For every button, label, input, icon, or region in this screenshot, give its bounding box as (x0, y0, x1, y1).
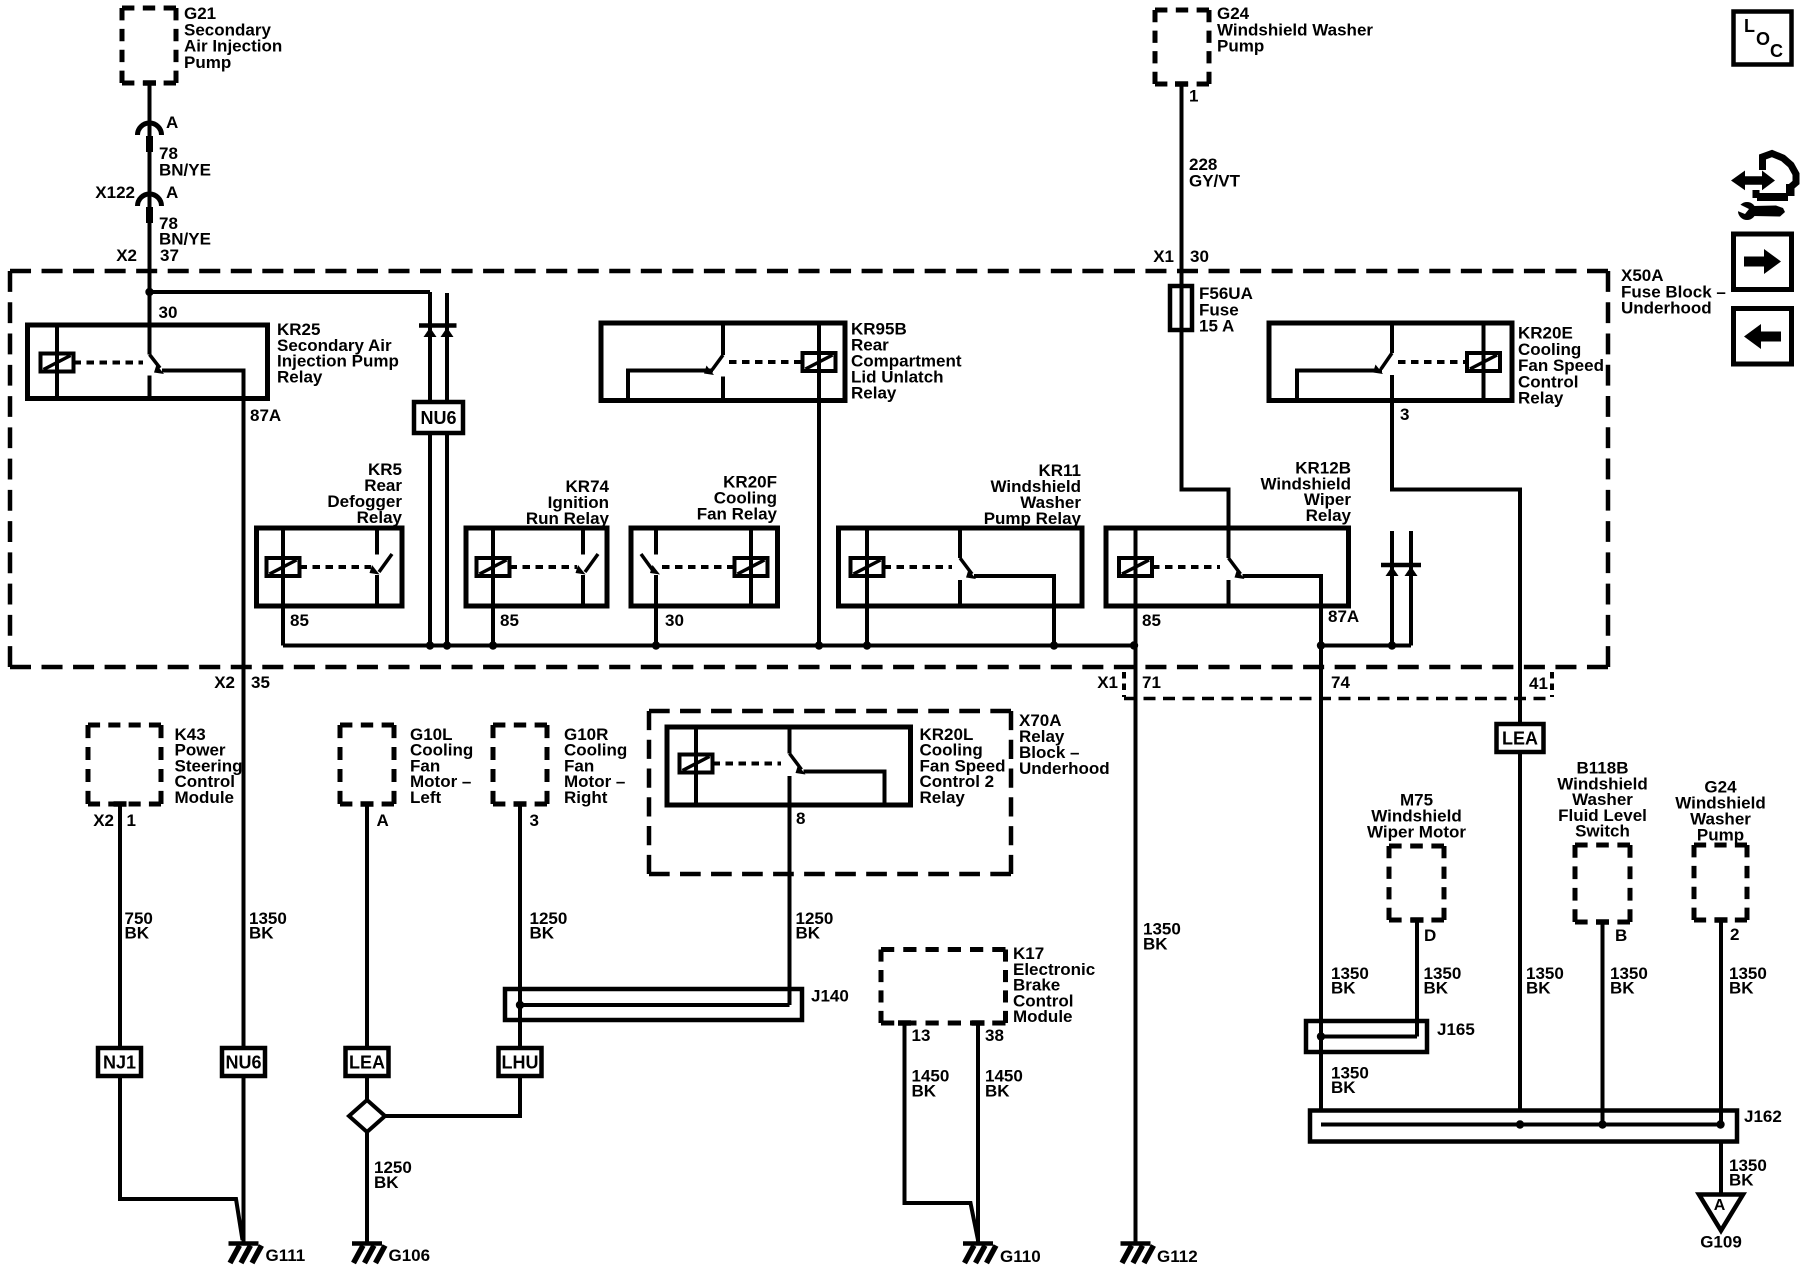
relay KR95B switch lower stub (721, 377, 725, 401)
relay KR12B box (1106, 528, 1349, 606)
svg-text:J162: J162 (1744, 1107, 1782, 1126)
junction dot at node 30 (145, 288, 153, 296)
boxed net LEA (upper) (1497, 724, 1544, 752)
relay KR25 switch blade (150, 355, 161, 369)
svg-text:A: A (377, 811, 389, 830)
relay KR20L coil wire (694, 727, 698, 805)
relay KR74 switch blade (585, 554, 598, 572)
wire J162 to G109 (1719, 1142, 1723, 1197)
icon LOC box (1734, 12, 1792, 65)
connector X1 strip dashed line (1124, 697, 1550, 701)
relay block X70A dashed outline (649, 709, 1011, 714)
relay KR25 87A internal wire (162, 371, 244, 399)
relay KR74 switch lower stub (581, 575, 585, 606)
wire NU6 right line (445, 293, 449, 646)
svg-text:BK: BK (249, 924, 274, 943)
relay KR95B coil wire to bus (817, 323, 821, 646)
relay KR74 coil wire / pin 85 (491, 528, 495, 646)
relay KR20E switch lower stub / pin 3 (1392, 375, 1520, 1111)
svg-text:D: D (1424, 926, 1436, 945)
relay KR20F coil (735, 558, 768, 576)
component G10R Cooling Fan Motor Right (493, 723, 547, 728)
svg-text:87A: 87A (250, 406, 281, 425)
splice diamond (349, 1100, 385, 1132)
svg-text:15 A: 15 A (1199, 317, 1234, 336)
svg-text:BK: BK (1331, 1078, 1356, 1097)
svg-text:X1: X1 (1097, 673, 1118, 692)
svg-text:Relay: Relay (357, 508, 403, 527)
svg-text:LEA: LEA (349, 1053, 385, 1073)
wire M75 pin D to J165 (1415, 920, 1419, 1037)
svg-text:Relay: Relay (920, 788, 966, 807)
wire K43 pin 1 to G111 (120, 804, 243, 1240)
relay KR5 dashed link (300, 565, 372, 569)
svg-text:BN/YE: BN/YE (159, 160, 211, 179)
svg-text:38: 38 (985, 1026, 1004, 1045)
svg-text:Fan Relay: Fan Relay (697, 505, 778, 524)
junction dot in J165 (1317, 1032, 1325, 1040)
relay KR95B switch upper stub (721, 323, 725, 355)
svg-text:Underhood: Underhood (1621, 299, 1712, 318)
relay KR20L box (667, 727, 911, 805)
relay KR12B switch blade (1229, 558, 1241, 574)
connector X1 strip end markers (1122, 672, 1126, 697)
relay KR12B coil wire / pin 85 to G112 (1134, 528, 1138, 1243)
svg-text:71: 71 (1142, 673, 1161, 692)
svg-text:85: 85 (290, 611, 309, 630)
wire G21 pin A to KR25 pin 30 (148, 83, 152, 355)
relay KR20F switch lower stub / pin 30 (654, 575, 658, 646)
ground G112 (1121, 1241, 1151, 1246)
relay KR11 coil (851, 558, 884, 576)
fuse F56UA (1170, 286, 1192, 330)
svg-text:74: 74 (1331, 673, 1350, 692)
svg-text:BK: BK (1424, 979, 1449, 998)
svg-text:G112: G112 (1157, 1247, 1198, 1266)
relay KR20F switch blade (641, 554, 654, 572)
svg-text:35: 35 (251, 673, 270, 692)
svg-text:BK: BK (1143, 935, 1168, 954)
boxed net NU6 (lower) (222, 1048, 265, 1076)
relay KR5 box (257, 528, 403, 606)
svg-text:J140: J140 (811, 987, 849, 1006)
relay KR11 coil wire to bus (865, 528, 869, 646)
svg-text:NU6: NU6 (420, 408, 456, 428)
connector arrows at KR12B (1390, 531, 1394, 646)
component G21 Secondary Air Injection Pump (122, 6, 176, 11)
svg-text:Right: Right (564, 788, 608, 807)
relay KR12B switch upper stub (1227, 528, 1231, 558)
wire diamond to G106 (365, 1132, 369, 1243)
svg-text:1: 1 (1189, 87, 1198, 106)
relay KR20L internal L wire (804, 772, 885, 806)
svg-text:LHU: LHU (502, 1053, 539, 1073)
component G10L Cooling Fan Motor Left (340, 723, 394, 728)
svg-text:Pump Relay: Pump Relay (984, 509, 1082, 528)
svg-text:X2: X2 (116, 246, 137, 265)
relay KR25 box (28, 325, 268, 399)
relay KR12B dashed link (1152, 565, 1220, 569)
svg-text:Relay: Relay (1518, 389, 1564, 408)
relay KR74 dashed link (510, 565, 578, 569)
svg-text:87A: 87A (1328, 607, 1359, 626)
relay KR12B internal L wire / pin 87A (1243, 576, 1322, 606)
wire node 30 horizontal branch (150, 290, 431, 294)
connector A at G21 (138, 123, 162, 135)
svg-text:LEA: LEA (1502, 729, 1538, 749)
relay KR25 switch lower stub (148, 376, 152, 399)
svg-text:BK: BK (1729, 979, 1754, 998)
svg-text:3: 3 (530, 811, 539, 830)
svg-text:3: 3 (1400, 405, 1409, 424)
relay KR95B dashed link (729, 360, 803, 364)
junction dots in J162 (1516, 1120, 1524, 1128)
component G24 Windshield Washer Pump (top) (1155, 8, 1209, 13)
relay KR11 switch upper stub (958, 528, 962, 558)
relay KR5 switch upper stub (375, 528, 379, 555)
svg-text:Left: Left (410, 788, 442, 807)
svg-text:X1: X1 (1153, 247, 1174, 266)
svg-text:37: 37 (160, 246, 179, 265)
svg-text:Run Relay: Run Relay (526, 509, 610, 528)
wire 87A bus segment (1321, 644, 1411, 648)
wire B118B pin B to J162 (1601, 922, 1605, 1125)
svg-text:BK: BK (912, 1082, 937, 1101)
svg-text:30: 30 (159, 303, 178, 322)
svg-text:X2: X2 (93, 811, 114, 830)
relay KR20F coil wire (749, 528, 753, 606)
relay KR20E coil wire (1482, 323, 1486, 401)
icon service double arrow (1731, 171, 1775, 191)
icon service curved arrow outline (1763, 154, 1797, 189)
svg-text:BK: BK (1331, 979, 1356, 998)
svg-text:1: 1 (127, 811, 136, 830)
relay KR11 box (839, 528, 1083, 606)
relay KR20E dashed link (1398, 360, 1467, 364)
relay KR12B switch lower stub (1227, 580, 1231, 606)
ground G110 (963, 1241, 993, 1246)
junction block J165 (1306, 1021, 1427, 1052)
svg-text:Pump: Pump (1697, 826, 1744, 845)
relay KR25 coil wire (55, 325, 59, 399)
relay KR95B internal L wire (628, 371, 713, 401)
icon forward arrow box (1734, 234, 1792, 290)
svg-text:BK: BK (125, 924, 150, 943)
wire KR12B 87A to J162 (1319, 606, 1323, 1111)
wire K17 pin 38 to G110 (976, 1023, 980, 1243)
svg-text:41: 41 (1529, 674, 1548, 693)
relay KR95B switch blade (712, 355, 723, 370)
svg-text:13: 13 (912, 1026, 931, 1045)
relay KR20L switch upper stub (788, 727, 792, 754)
relay KR20F switch upper stub (654, 528, 658, 555)
fuse block X50A dashed outline (10, 269, 1608, 274)
relay KR95B box (601, 323, 845, 401)
relay KR5 switch blade (379, 554, 392, 572)
svg-text:Underhood: Underhood (1019, 759, 1110, 778)
svg-text:G106: G106 (389, 1246, 431, 1265)
relay KR11 dashed link (884, 565, 953, 569)
svg-text:Pump: Pump (184, 53, 231, 72)
relay KR20E switch blade (1381, 353, 1392, 369)
svg-text:BK: BK (1610, 979, 1635, 998)
wire G10L pin A to diamond (365, 804, 369, 1102)
connector triangle A to G109 (1699, 1195, 1743, 1231)
svg-text:BK: BK (1729, 1171, 1754, 1190)
relay KR74 box (466, 528, 607, 606)
svg-text:85: 85 (1142, 611, 1161, 630)
ground G106 (352, 1241, 382, 1246)
relay KR5 coil wire / pin 85 (281, 528, 285, 646)
junction dot in J140 (516, 1001, 524, 1009)
connector arrows NU6 (419, 323, 457, 328)
relay KR11 switch lower stub (958, 580, 962, 606)
svg-text:GY/VT: GY/VT (1189, 171, 1241, 190)
svg-text:B: B (1615, 926, 1627, 945)
svg-text:G111: G111 (266, 1246, 306, 1265)
connector X122 (138, 194, 162, 206)
icon service wrench (1738, 202, 1756, 220)
relay KR20E switch upper stub (1390, 323, 1394, 353)
svg-text:A: A (166, 183, 178, 202)
svg-text:85: 85 (500, 611, 519, 630)
boxed net NU6 (upper) (414, 402, 463, 433)
svg-text:30: 30 (1190, 247, 1209, 266)
component K43 Power Steering Control Module (88, 723, 161, 728)
svg-text:BK: BK (796, 924, 821, 943)
svg-text:C: C (1770, 41, 1783, 61)
relay KR20L switch blade (790, 754, 802, 770)
svg-text:8: 8 (796, 809, 805, 828)
svg-text:BK: BK (1526, 979, 1551, 998)
svg-text:Relay: Relay (1306, 506, 1352, 525)
relay KR20F dashed link (662, 565, 735, 569)
svg-text:O: O (1756, 29, 1770, 49)
relay KR5 switch lower stub (375, 575, 379, 606)
junction block J140 (505, 989, 802, 1020)
svg-text:A: A (166, 113, 178, 132)
relay KR74 coil (477, 558, 510, 576)
svg-text:BK: BK (530, 924, 555, 943)
svg-text:Relay: Relay (851, 384, 897, 403)
relay KR20F box (631, 528, 778, 606)
junction block J162 (1310, 1111, 1737, 1142)
component G24 Windshield Washer Pump (bottom) (1694, 843, 1747, 848)
svg-text:Wiper Motor: Wiper Motor (1367, 823, 1466, 842)
relay KR12B coil (1119, 558, 1152, 576)
wire NU6 left line (428, 292, 432, 646)
svg-text:Relay: Relay (277, 367, 323, 386)
junction dots on ground bus (426, 641, 434, 649)
wire KR25 87A to G111 (242, 399, 246, 1244)
boxed net LHU (499, 1048, 542, 1076)
svg-text:G110: G110 (1000, 1247, 1041, 1266)
relay KR20L dashed link (713, 762, 782, 766)
relay KR20E internal L wire (1297, 371, 1382, 401)
svg-text:BK: BK (374, 1173, 399, 1192)
wire G24 pin 2 to J162 (1719, 920, 1723, 1125)
relay KR20E coil (1467, 353, 1500, 371)
wire K17 pin 13 to G110 (905, 1023, 979, 1240)
svg-text:Pump: Pump (1217, 37, 1264, 56)
wire entry stubs on dashed boxes (143, 80, 156, 86)
junction dots on 87A segment (1317, 641, 1325, 649)
svg-text:NJ1: NJ1 (103, 1053, 136, 1073)
wire G24 pin 1 through fuse to KR12B (1182, 84, 1229, 528)
svg-text:Switch: Switch (1575, 822, 1630, 841)
relay KR25 coil (41, 354, 74, 372)
svg-text:2: 2 (1730, 925, 1739, 944)
relay KR11 internal L wire / pin to bus (974, 576, 1054, 646)
icon back arrow box (1734, 309, 1792, 365)
ground G111 (229, 1241, 259, 1246)
svg-text:A: A (1714, 1197, 1726, 1214)
svg-text:NU6: NU6 (225, 1053, 261, 1073)
wire ground bus (283, 644, 1134, 648)
component B118B Windshield Washer Fluid Level Switch (1575, 843, 1630, 848)
relay KR5 coil (267, 558, 300, 576)
boxed net NJ1 (98, 1048, 141, 1076)
svg-text:Module: Module (1013, 1007, 1073, 1026)
component K17 Electronic Brake Control Module (881, 947, 1006, 952)
relay KR20L switch lower stub / pin 8 (788, 776, 792, 1005)
svg-text:30: 30 (665, 611, 684, 630)
relay KR11 switch blade (960, 558, 972, 574)
wire LHU to diamond (385, 1076, 520, 1116)
svg-text:X2: X2 (214, 673, 235, 692)
relay KR20E box (1269, 323, 1512, 401)
svg-text:Module: Module (175, 788, 235, 807)
component M75 Windshield Wiper Motor (1389, 844, 1444, 849)
svg-text:J165: J165 (1437, 1020, 1475, 1039)
svg-text:L: L (1744, 16, 1755, 36)
relay KR25 coil-switch dashed link (74, 361, 144, 365)
relay KR74 switch upper stub (581, 528, 585, 555)
wire G10R pin 3 through J140 to LHU (518, 804, 522, 1048)
svg-text:BK: BK (985, 1082, 1010, 1101)
boxed net LEA (lower) (346, 1048, 389, 1076)
svg-text:G109: G109 (1700, 1233, 1742, 1252)
relay KR95B coil (803, 353, 836, 371)
svg-text:X122: X122 (95, 183, 135, 202)
relay KR20L coil (680, 755, 713, 773)
